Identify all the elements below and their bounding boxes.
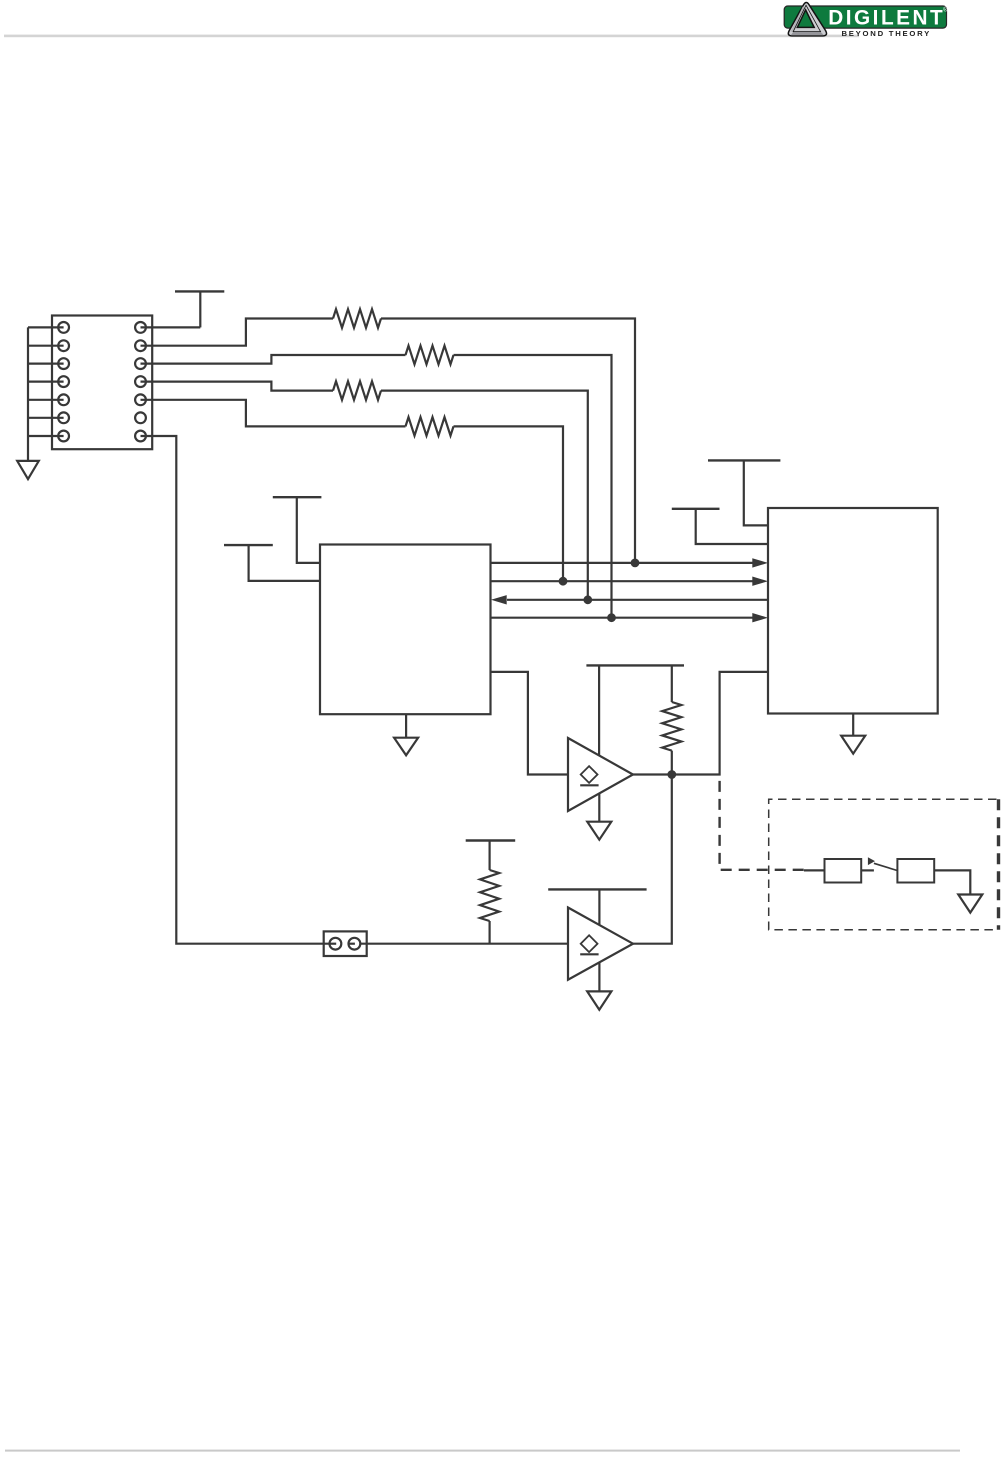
svg-text:®: ® [943, 7, 948, 14]
arrow line 1 [752, 558, 768, 567]
jumper pin ticks [330, 943, 337, 945]
wire R6 to U5 input net [489, 921, 491, 944]
wire into pot element A [804, 869, 825, 871]
pot element B [897, 859, 934, 883]
svg-text:DIGILENT: DIGILENT [828, 6, 945, 29]
resistor R6 [480, 870, 499, 921]
wire J1 pin7 to jumper JP1 [141, 436, 330, 944]
wiper arrow [868, 857, 875, 865]
jumper JP1 pin 2 [349, 938, 361, 950]
power symbol P2 [273, 496, 322, 498]
ground symbol U5 [587, 991, 611, 1009]
dashed enclosure right edge [997, 799, 1000, 930]
resistor R4 [406, 417, 454, 436]
buffer U4 [568, 738, 633, 811]
ground bus wire [27, 327, 29, 461]
power symbol P4 [708, 459, 780, 461]
connector J1 body [52, 316, 152, 450]
wire J1 pin5 to R4 [141, 400, 406, 427]
wire R5 to output node [671, 751, 673, 775]
wire JP1 to buffer U5 input [360, 943, 568, 945]
dashed enclosure box [769, 799, 997, 930]
buffer U5 [568, 908, 633, 980]
ground stem U5 [598, 962, 600, 991]
wire R1 to bus line 1 [381, 319, 635, 563]
bus wire line 1 [491, 562, 753, 564]
svg-text:BEYOND THEORY: BEYOND THEORY [842, 29, 932, 38]
wire R3 to bus line 3 [381, 391, 588, 600]
arrow line 4 [752, 613, 768, 622]
header rule [4, 35, 859, 38]
power bar above U5 [548, 888, 646, 890]
dashed link from output node to pot box [720, 781, 804, 870]
ground stem U4 [598, 794, 600, 822]
junction dot line 2 [560, 578, 567, 585]
wires J1 left pins to ground bus [28, 327, 64, 436]
power bar above U4 [586, 664, 684, 666]
open-drain symbol U4 [581, 766, 598, 783]
net wire U4 output down to U5 output [633, 775, 672, 944]
power symbol P3 [224, 544, 273, 546]
junction dot line 1 [632, 560, 639, 567]
IC U3 body [768, 508, 938, 714]
supply stem into U4 [598, 665, 600, 755]
output wire U4 [633, 672, 768, 775]
connector J1 right pins [135, 322, 146, 441]
power symbol P6 above R6 [466, 839, 516, 841]
junction dot U4 output [669, 771, 676, 778]
resistor R2 [406, 346, 454, 365]
arrow line 2 [752, 577, 768, 586]
wire J1 pin4 to R3 [141, 382, 334, 391]
power symbol P1 [175, 290, 224, 292]
power symbol P5 [672, 508, 720, 510]
IC U2 body [320, 545, 491, 715]
wire element B to ground [934, 870, 970, 894]
bus wire line 4 [491, 617, 753, 619]
wire R4 to bus line 2 [454, 426, 564, 581]
wire J1 pin3 to R2 [141, 355, 406, 364]
wire U2 to buffer U4 input [491, 672, 569, 775]
resistor R1 [333, 309, 381, 328]
open-drain symbol U5 [581, 935, 598, 952]
connector J1 left pins [58, 322, 69, 441]
wire J1 pin2 to R1 [141, 319, 334, 346]
ground symbol at connector [17, 461, 39, 479]
ground symbol under U3 [852, 714, 854, 736]
resistor R5 [662, 702, 681, 751]
jumper JP1 body [324, 931, 367, 956]
wiper diagonal [874, 863, 897, 870]
ground symbol in enclosure [958, 895, 982, 913]
ground symbol U4 [587, 822, 611, 840]
arrow line 3 [491, 595, 507, 604]
bus wire line 3 [507, 599, 768, 601]
supply stem into U5 [598, 889, 600, 924]
ground symbol under U2 [405, 714, 407, 738]
pull-up resistor R5 feed [671, 665, 673, 702]
bus wire line 2 [491, 580, 753, 582]
Digilent logo green box [784, 6, 946, 28]
junction dot line 3 [585, 597, 592, 604]
jumper JP1 pin 1 [330, 938, 342, 950]
resistor R3 [333, 381, 381, 400]
wire J1 pin1 to power [141, 326, 201, 328]
stub from element A [861, 869, 874, 871]
pot element A [825, 859, 862, 883]
footer rule [5, 1450, 960, 1452]
Digilent logo triangle [788, 3, 826, 36]
junction dot line 4 [608, 614, 615, 621]
wire R2 to bus line 4 [454, 355, 612, 618]
